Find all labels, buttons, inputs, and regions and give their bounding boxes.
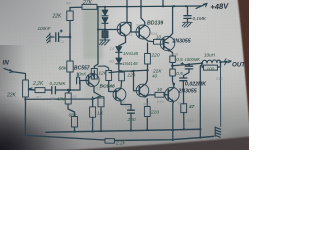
resistor 100 (parallel) [202, 62, 221, 67]
wire to bottom (from output network) [200, 65, 202, 138]
resistor R12 220 [146, 99, 148, 107]
text labels: values (ink) [3, 0, 247, 147]
resistor (filled, bias) [102, 31, 108, 38]
node A (filter node) [69, 36, 72, 39]
resistor 27K (series in rail) [82, 4, 97, 9]
resistor 2.2k (feedback lower) [105, 139, 115, 144]
transistor T2 BC546 [113, 88, 126, 101]
diode chain bias (rail to ground) [104, 7, 106, 10]
diode D2 1N4148 [116, 58, 122, 64]
wire output line [173, 62, 227, 66]
paper background [0, 0, 249, 150]
resistor 400 (T1 lower) [94, 92, 101, 96]
resistor 12K (collector load) [91, 69, 97, 80]
transistor T5 2N3055 top [160, 36, 174, 50]
wire stub (cropped at top) [162, 0, 164, 6]
transistor T6 2N3055 bottom [165, 87, 179, 101]
resistor R6 1K [90, 107, 96, 118]
wire supply vertical x98 [94, 7, 98, 79]
resistor 0.5 (top) [170, 56, 176, 63]
wire ground bus B junctions [199, 128, 201, 130]
wire feedback tap [25, 97, 101, 100]
resistor 680 [72, 117, 78, 128]
stain band center-left [83, 8, 103, 58]
capacitor 33nK [77, 78, 80, 84]
wire speaker return [220, 62, 222, 126]
wire top supply rail [70, 6, 202, 8]
node rail dots [104, 5, 187, 8]
wire node to right [121, 70, 147, 71]
transistor T3 (VAS) [117, 22, 131, 36]
capacitor 0.1MK (supply decoupling) [187, 6, 189, 15]
transistor T4 BD139 [136, 25, 150, 39]
capacitor C8 0.022MK [180, 78, 187, 81]
ground (left cap) [47, 33, 51, 43]
wire node to 12K [109, 71, 121, 72]
transistor T7 driver [136, 84, 149, 97]
ground chassis (main) [214, 127, 216, 136]
OUT arrow [224, 59, 227, 65]
wire to T1 base [80, 81, 89, 91]
wire pot ground leg / feedback rail [25, 97, 105, 140]
capacitor C5 200 [128, 110, 135, 113]
resistor R10 47 [181, 104, 187, 113]
resistor 10 (output base) [155, 92, 164, 97]
resistor 220 (VAS load) [119, 72, 125, 81]
resistor 0.5 (bottom) [170, 69, 176, 76]
table edge bottom [14, 136, 250, 152]
resistor R1 2.2K [28, 89, 35, 91]
diode D1 1N4148 [116, 47, 122, 53]
resistor R3 47K [68, 90, 70, 93]
wire input [13, 72, 26, 80]
wire ground bus A [46, 129, 201, 132]
resistor R4 22K [69, 8, 71, 62]
capacitor C7 1000MK output [188, 64, 190, 66]
inductor L1 10uH [202, 60, 221, 63]
resistor 220 (bias) [147, 43, 149, 54]
+48V supply arrow [196, 3, 207, 8]
table edge top-right [238, 0, 252, 140]
IN arrow [4, 69, 13, 72]
resistor R2 68K [67, 61, 73, 72]
ground (decoupling cap) [182, 22, 192, 27]
capacitor C1 0.22MK [52, 87, 56, 94]
ground (bias chain) [100, 40, 111, 45]
resistor R5 [106, 71, 112, 81]
potentiometer 22K [23, 80, 29, 97]
capacitor 100nF electrolytic [50, 33, 70, 37]
transistor T1 BC557 [86, 73, 99, 86]
shading [0, 0, 249, 150]
resistor R14 10 [154, 39, 164, 44]
